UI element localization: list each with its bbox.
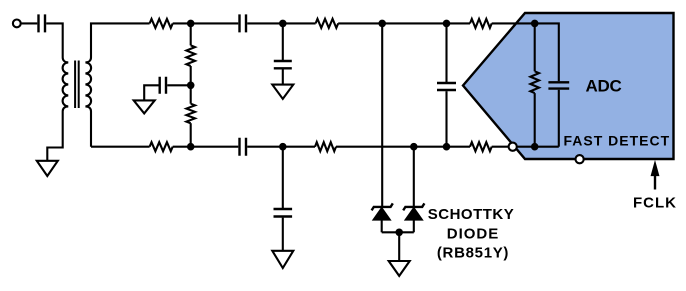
svg-text:FCLK: FCLK	[633, 195, 677, 212]
ground (schottky)	[389, 261, 410, 276]
ADC internal capacitor	[548, 82, 569, 88]
wire bottom rail from secondary	[91, 146, 150, 148]
svg-text:(RB851Y): (RB851Y)	[437, 245, 509, 262]
node dot ADC internal top	[531, 20, 539, 28]
shunt cap C5 top with ground	[282, 23, 284, 60]
resistor R5 (top rail into ADC)	[470, 19, 492, 28]
svg-text:ADC: ADC	[586, 77, 622, 96]
svg-text:DIODE: DIODE	[447, 225, 500, 242]
ground (C3)	[134, 100, 155, 113]
wire input to C1	[21, 22, 37, 24]
wire R4 to R6	[336, 146, 470, 148]
node dot schottky common	[395, 229, 403, 237]
node dot top rail 4	[443, 20, 451, 28]
capacitor C6	[274, 209, 293, 217]
transformer T1 core	[75, 61, 79, 109]
wire secondary top to rail	[91, 23, 150, 57]
resistor R6 (bottom rail into ADC)	[470, 142, 492, 151]
wire bottom rail to schottky D2	[413, 147, 415, 207]
resistor R2a (vertical top)	[186, 45, 195, 66]
wire R6 to pin AIN-	[492, 146, 535, 148]
wire C2 to R3	[247, 22, 315, 24]
transformer T1 secondary winding	[85, 58, 91, 147]
capacitor C3 (bypass)	[160, 77, 166, 94]
ADC internal top wire	[535, 23, 559, 81]
ADC internal bottom wire	[535, 146, 559, 148]
ground (C6)	[272, 251, 293, 268]
capacitor C5	[274, 61, 292, 68]
node dot mid divider	[187, 82, 195, 90]
wire joining diodes	[382, 231, 414, 233]
wire R2 to C4	[173, 146, 239, 148]
pin AIN- open circle	[509, 143, 517, 151]
input terminal J1	[13, 20, 21, 28]
wire C4 to R4	[247, 146, 315, 148]
wire C3 to ground	[144, 85, 158, 100]
shunt cap C6 bottom with ground	[282, 147, 284, 208]
resistor R3 (top rail)	[316, 19, 339, 28]
wire R2b to bottom rail	[190, 123, 192, 147]
vertical resistor chain at node A	[190, 23, 192, 45]
wire R1 to C2	[173, 22, 239, 24]
node dot top rail 2	[279, 20, 287, 28]
svg-text:FAST DETECT: FAST DETECT	[564, 133, 671, 149]
transformer T1 primary winding	[47, 58, 68, 161]
wire C6 to ground	[282, 218, 284, 251]
capacitor C1	[39, 14, 46, 32]
ground (C5)	[272, 85, 293, 99]
node dot bottom rail 1	[187, 143, 195, 151]
capacitor C4 (bottom series)	[240, 138, 247, 156]
schottky diode D1	[372, 203, 393, 210]
node dot bottom rail 4	[443, 143, 451, 151]
wire to schottky ground	[398, 232, 400, 261]
pin FAST DETECT open circle	[576, 155, 584, 163]
wire top rail to schottky D1	[381, 23, 383, 207]
op-amp U1 ADC block	[463, 13, 674, 159]
resistor R4 (bottom rail)	[315, 142, 336, 151]
resistor R1 (top rail)	[150, 19, 173, 28]
node dot top rail 3	[378, 20, 386, 28]
capacitor C2 (top series)	[240, 14, 247, 32]
wire C5 to ground	[282, 69, 284, 84]
wire node M to C3	[167, 84, 191, 86]
svg-text:SCHOTTKY: SCHOTTKY	[428, 206, 515, 223]
FCLK arrow	[654, 174, 656, 190]
resistor R2b (vertical bottom)	[186, 104, 195, 124]
node dot bottom rail 2	[279, 143, 287, 151]
wire R5 to internal node	[492, 22, 535, 24]
wire C1 to transformer primary	[46, 23, 63, 57]
differential cap C7	[445, 23, 447, 82]
node dot top rail 1	[187, 20, 195, 28]
schottky diode D2	[403, 203, 424, 210]
wire R2a to node M	[190, 66, 192, 85]
ground (transformer primary)	[37, 161, 58, 176]
resistor R2 (bottom rail)	[150, 142, 173, 151]
ADC internal resistor	[534, 23, 536, 71]
node dot ADC internal bottom	[531, 143, 539, 151]
wire node M to R2b	[190, 85, 192, 103]
wire R3 to R5	[338, 22, 470, 24]
node dot bottom rail 3	[410, 143, 418, 151]
